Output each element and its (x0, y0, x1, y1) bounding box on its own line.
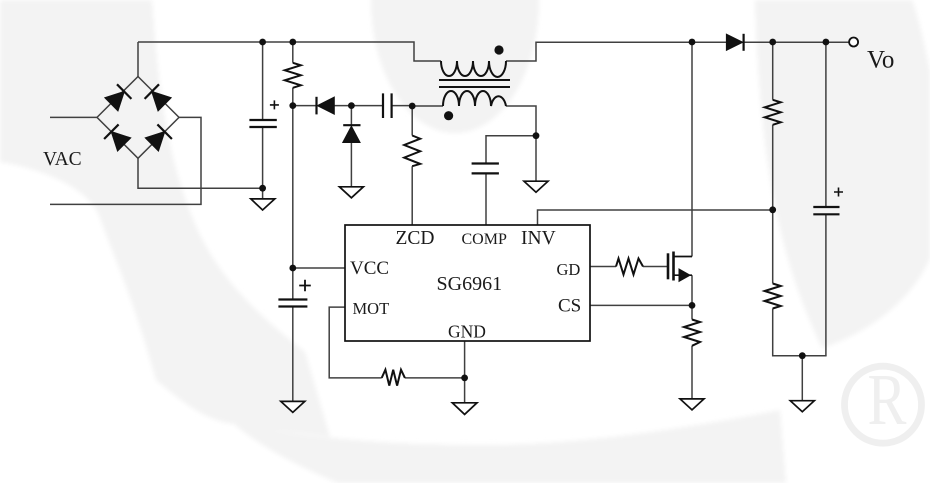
node output ground (799, 352, 806, 359)
svg-text:MOT: MOT (353, 299, 390, 318)
primary phase dot (494, 45, 503, 54)
wire: GD to gate resistor (590, 266, 668, 268)
wire: INV line (538, 210, 773, 225)
startup resistor (285, 63, 301, 88)
svg-text:Vo: Vo (867, 47, 894, 74)
svg-text:GD: GD (557, 260, 581, 279)
wire: bridge top vertex to rail (137, 42, 139, 77)
svg-text:R: R (868, 360, 907, 441)
plus sign output cap (834, 188, 843, 197)
wire: CS resistor to ground (691, 305, 693, 399)
ground CS resistor (680, 399, 704, 410)
wire: aux winding left lead (412, 105, 443, 107)
node CS (689, 302, 696, 309)
VCC diode (cathode left) (317, 97, 335, 115)
wire: zener branch (350, 106, 352, 187)
node rail/output cap (823, 39, 830, 46)
bridge diode upper-right (145, 84, 171, 111)
svg-text:CS: CS (558, 296, 581, 317)
VCC capacitor (278, 300, 307, 307)
svg-text:INV: INV (521, 228, 556, 249)
wire: VAC bottom lead to bridge right vertex (50, 117, 201, 204)
MOSFET Q1 (668, 252, 692, 281)
wire: primary right lead to rail (506, 42, 726, 61)
node ZCD/aux (409, 103, 416, 110)
feedback resistor lower (765, 284, 781, 309)
bridge diode upper-left (105, 84, 131, 111)
wire: output cap branch (825, 42, 827, 356)
transformer core (439, 80, 510, 87)
wire: bulk cap branch (262, 42, 264, 199)
MOT resistor (382, 370, 405, 386)
watermark bottom arc (234, 410, 786, 483)
node rail/drain (689, 39, 696, 46)
ground aux return (524, 181, 548, 192)
wire: CS line (590, 304, 692, 306)
node aux return (533, 132, 540, 139)
watermark registered trademark (845, 360, 922, 443)
Vo terminal circle (849, 38, 858, 47)
wire: GND pin (464, 341, 466, 403)
ground GND pin (452, 403, 477, 415)
bridge diode lower-right (145, 124, 171, 150)
bridge rectifier frame (97, 77, 179, 159)
ground bulk cap (251, 199, 275, 210)
coupling capacitor to ZCD (383, 93, 392, 118)
bulk capacitor C1 (249, 120, 276, 127)
wire: drain vertical (691, 42, 693, 257)
ground output (790, 401, 814, 412)
transformer primary winding (441, 61, 506, 77)
COMP capacitor (472, 164, 499, 174)
output capacitor (813, 207, 839, 214)
wire: feedback divider (773, 42, 827, 356)
node VCC pin (289, 265, 296, 272)
watermark top-middle blob (371, 0, 539, 133)
node GND pin/MOT (461, 375, 468, 382)
wire: VAC top lead (50, 116, 97, 118)
wire: ZCD branch (411, 106, 413, 225)
MOSFET source arrow (679, 269, 690, 281)
node rail/divider (769, 39, 776, 46)
ground VCC cap (281, 401, 305, 412)
node INV/divider (769, 206, 776, 213)
output diode (727, 34, 744, 51)
wire: MOT loop (329, 307, 464, 378)
wire: bridge bottom to bulk cap bottom node (138, 158, 263, 188)
gate resistor (616, 259, 643, 275)
IC box SG6961 (345, 225, 590, 341)
wire: source down (691, 275, 693, 305)
wire: COMP pin (485, 173, 487, 225)
plus sign bulk cap (270, 100, 279, 109)
wire: COMP cap to aux return (486, 136, 536, 164)
plus sign VCC cap (299, 280, 311, 292)
wire: rail after output diode to Vo (744, 41, 849, 43)
wire: top rail left section (138, 42, 441, 61)
aux phase dot (444, 111, 453, 120)
ground zener (339, 187, 363, 198)
wire: VCC node horizontal (293, 105, 412, 107)
svg-text:GND: GND (448, 322, 486, 342)
transformer aux winding (443, 91, 506, 106)
wire: output ground stem (801, 356, 803, 401)
bridge diode lower-left (104, 124, 130, 150)
watermark left band (0, 0, 330, 437)
watermark right band (755, 0, 930, 348)
node rail/startup (289, 39, 296, 46)
wire: VCC rail down (293, 106, 345, 402)
feedback resistor upper (765, 100, 781, 125)
node rail/bulk cap (259, 39, 266, 46)
node zener top (348, 102, 355, 109)
zener diode (343, 125, 361, 142)
node VCC diode cathode (289, 102, 296, 109)
svg-text:VCC: VCC (350, 258, 389, 279)
ZCD resistor (404, 136, 420, 167)
svg-text:SG6961: SG6961 (437, 273, 503, 295)
svg-text:VAC: VAC (43, 149, 82, 170)
node bulk cap bottom (259, 185, 266, 192)
wire: aux winding right lead to ground (506, 106, 536, 181)
CS resistor (684, 320, 700, 346)
svg-text:COMP: COMP (462, 231, 507, 248)
svg-text:ZCD: ZCD (396, 228, 435, 249)
wire: startup resistor branch (292, 42, 294, 106)
